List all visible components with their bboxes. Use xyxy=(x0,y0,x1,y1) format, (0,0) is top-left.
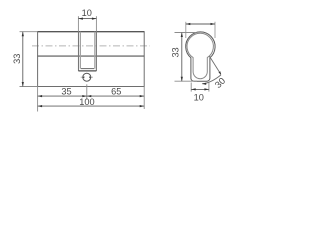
dim 10 extension line left xyxy=(77,16,79,32)
dim 100 line xyxy=(38,105,145,107)
cam circle xyxy=(83,73,91,81)
profile outer silhouette xyxy=(186,32,215,81)
dim 33 right bottom extension xyxy=(175,80,198,82)
cam angle leader curve xyxy=(202,75,221,84)
cam axis dash line xyxy=(81,76,93,78)
cam angle leader arrow xyxy=(202,83,207,85)
svg-text:35: 35 xyxy=(61,87,71,97)
cam slot bottom outer line xyxy=(78,70,96,72)
svg-text:10: 10 xyxy=(82,8,92,18)
cam slot left wall (outer) xyxy=(78,32,80,71)
dim 33 line xyxy=(22,32,24,87)
top dim extension right xyxy=(214,22,216,38)
cam angle 30 deg line xyxy=(209,56,221,74)
cam slot left wall (inner) xyxy=(79,32,81,69)
svg-text:65: 65 xyxy=(111,87,121,97)
dim 100 arrow left xyxy=(38,105,43,107)
dim 33 right line xyxy=(181,33,183,82)
top dim arrow left xyxy=(186,23,191,25)
cam tip right xyxy=(89,76,91,78)
dim 10 arrow left xyxy=(78,18,83,20)
body top edge (darker) xyxy=(38,31,145,33)
dim 35 arrow left xyxy=(38,95,43,97)
cam slot right wall (inner) xyxy=(94,32,96,69)
centerline (dash-dot axis) xyxy=(32,45,150,47)
cam tip left xyxy=(82,76,84,78)
dim 33 top extension line xyxy=(20,31,38,33)
dim 10 right arrow right xyxy=(204,88,209,90)
svg-text:33: 33 xyxy=(170,47,180,57)
dim 10 right extension right xyxy=(208,83,210,92)
dim 35/65 line xyxy=(38,95,145,97)
dim 33 bottom extension line xyxy=(20,86,38,88)
dim 33 right top extension xyxy=(175,32,197,34)
cam slot right wall (outer) xyxy=(95,32,97,71)
dim 10 line xyxy=(78,18,96,20)
dim 33 right arrow top xyxy=(181,33,183,38)
dim 10 right extension left xyxy=(190,83,192,92)
dim 100 arrow right xyxy=(140,105,145,107)
dim 35/65 center arrows xyxy=(82,95,87,97)
profile inner line xyxy=(187,33,213,78)
extension line below left edge xyxy=(37,87,39,112)
cylinder body outline xyxy=(38,32,145,87)
top dim arrow right xyxy=(211,23,216,25)
svg-text:10: 10 xyxy=(194,92,204,102)
dim 10 right arrow left xyxy=(191,88,196,90)
svg-text:100: 100 xyxy=(79,97,94,107)
extension line below right edge xyxy=(143,87,145,110)
top dim extension left xyxy=(185,22,187,38)
top dim line (unlabeled) xyxy=(186,23,215,25)
dim 10 arrow right xyxy=(92,18,97,20)
extension line below center xyxy=(86,84,88,99)
svg-text:33: 33 xyxy=(12,54,22,64)
cam angle arrow at line end xyxy=(219,71,222,75)
cam slot bottom inner line xyxy=(81,68,94,70)
body mid feature line xyxy=(38,55,145,57)
dim 33 right arrow bottom xyxy=(181,77,183,82)
dim 65 arrow right xyxy=(140,95,145,97)
dim 33 arrow bottom xyxy=(22,82,24,87)
dim 10 right line xyxy=(191,88,209,90)
dim 33 arrow top xyxy=(22,32,24,37)
dim 10 extension line right xyxy=(95,16,97,32)
